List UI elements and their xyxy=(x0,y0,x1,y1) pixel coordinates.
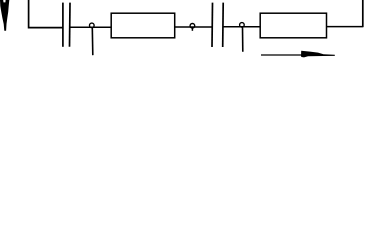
wire xyxy=(362,0,364,27)
node N2 xyxy=(190,24,195,29)
wire stub below node N1 xyxy=(91,28,94,56)
wire xyxy=(29,0,63,28)
wire xyxy=(175,26,212,28)
arrow head xyxy=(301,51,335,58)
input arrow glyph xyxy=(0,0,9,31)
capacitor C1 right plate xyxy=(69,3,72,47)
capacitor C2 right plate xyxy=(222,3,225,47)
capacitor C2 left plate xyxy=(211,3,214,47)
wire xyxy=(327,26,363,28)
node N1 xyxy=(90,23,95,28)
wire stub below node N2 xyxy=(191,28,193,31)
wire xyxy=(70,26,111,28)
wire stub below node N3 xyxy=(242,27,244,52)
node N3 xyxy=(240,23,245,28)
box B2 xyxy=(260,13,326,38)
box B1 xyxy=(111,13,175,38)
wire xyxy=(223,26,260,28)
capacitor C1 left plate xyxy=(62,3,64,47)
arrow tail xyxy=(261,54,305,56)
